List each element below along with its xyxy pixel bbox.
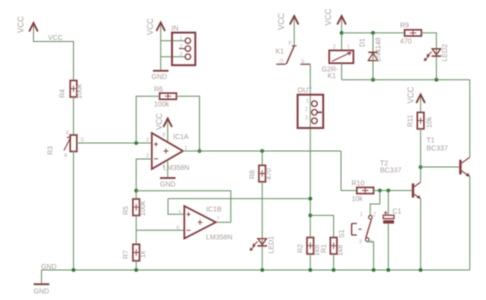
wire IC1A -in jog <box>136 159 152 191</box>
svg-text:470: 470 <box>400 39 412 46</box>
supply symbol VCC (IC1A) <box>155 113 172 130</box>
wire IC1B output lead <box>216 221 231 223</box>
svg-text:GND: GND <box>41 264 57 271</box>
svg-text:100k: 100k <box>77 83 84 99</box>
svg-text:R5: R5 <box>123 206 130 215</box>
resistor R10 <box>352 181 374 204</box>
junction OUT column / R1 branch <box>308 214 312 218</box>
svg-text:3: 3 <box>359 240 362 246</box>
relay coil K1 <box>322 45 354 81</box>
svg-text:1: 1 <box>360 212 363 218</box>
svg-text:2: 2 <box>333 45 336 51</box>
svg-text:10k: 10k <box>427 116 434 128</box>
svg-text:C1: C1 <box>393 209 402 216</box>
wire R6 left lead down to +in <box>136 96 159 143</box>
resistor R8 <box>250 165 274 182</box>
svg-text:2: 2 <box>373 212 376 218</box>
connector IN <box>172 26 196 66</box>
svg-text:S1: S1 <box>339 229 346 238</box>
svg-text:LED1: LED1 <box>269 236 276 254</box>
svg-text:BC337: BC337 <box>427 146 449 153</box>
junction OUT column / feedback row <box>308 197 312 201</box>
junction R1/rail <box>332 268 336 272</box>
resistor R11 <box>408 112 434 128</box>
junction S1/rail <box>372 268 376 272</box>
ground symbol GND (bottom left) <box>34 270 50 296</box>
relay contact K1 <box>276 41 311 65</box>
resistor R4 <box>60 81 84 100</box>
wire VCC left to R4 column <box>34 32 74 81</box>
wire S1 to rail <box>367 242 373 271</box>
svg-text:BC337: BC337 <box>380 168 402 175</box>
wire R11 to T1 base node <box>420 129 422 167</box>
svg-text:VCC: VCC <box>155 113 164 130</box>
ground rail (bottom) <box>42 269 470 271</box>
svg-text:T2: T2 <box>380 161 388 168</box>
svg-text:VCC: VCC <box>324 8 333 25</box>
svg-text:D1: D1 <box>360 38 367 47</box>
wire D1 top lead <box>372 33 374 80</box>
junction D1 bottom <box>371 78 375 82</box>
wire R8 to LED1 <box>261 182 263 270</box>
wire IC1A out to R10 <box>341 151 357 191</box>
potentiometer R3 <box>48 131 85 160</box>
svg-text:VCC: VCC <box>17 16 26 33</box>
wire K1 S contact down through OUT to R2 <box>309 64 311 237</box>
supply symbol VCC (left) <box>17 16 38 33</box>
svg-text:6: 6 <box>177 226 180 232</box>
junction T2 collector node <box>419 165 423 169</box>
wire T2 emitter to rail <box>420 199 422 270</box>
resistor R7 <box>123 244 147 260</box>
svg-text:IN: IN <box>172 26 179 33</box>
svg-text:7: 7 <box>217 217 220 223</box>
svg-text:1N4148: 1N4148 <box>376 37 383 62</box>
wire VCC to K1 pole <box>293 25 295 46</box>
wire to capacitor C1 <box>387 191 389 216</box>
transistor T2 <box>380 161 421 199</box>
supply symbol VCC (IN header) <box>146 18 165 35</box>
junction S1 branch <box>378 189 382 193</box>
switch S1 <box>339 212 376 246</box>
wire R4 to R3 <box>73 97 75 135</box>
junction D1 top <box>371 31 375 35</box>
svg-text:R8: R8 <box>250 170 257 179</box>
top rail to R9 <box>342 32 405 34</box>
svg-text:K1: K1 <box>276 49 285 56</box>
wire R1 to rail <box>333 254 335 270</box>
wire VCC to R11 <box>420 103 422 112</box>
wire R7 to rail <box>135 261 137 270</box>
wire C1 to rail <box>387 224 389 270</box>
svg-text:10k: 10k <box>352 196 364 203</box>
wire R3 bottom to ground rail <box>73 152 75 271</box>
supply symbol VCC (K1 contact) <box>277 13 299 30</box>
svg-text:R1: R1 <box>321 244 328 253</box>
op-amp IC1B <box>177 206 233 242</box>
LED LED1 <box>250 236 276 254</box>
wire R5 to R7 <box>135 216 137 245</box>
svg-text:1: 1 <box>306 99 309 105</box>
svg-text:4: 4 <box>163 164 166 170</box>
svg-text:1: 1 <box>180 36 183 42</box>
svg-text:LED2: LED2 <box>442 44 449 62</box>
wire T1 collector to relay rail <box>469 80 471 158</box>
junction C1 branch <box>386 189 390 193</box>
junction R7/rail <box>134 268 138 272</box>
wire VCC to IN pin1 and down to GND <box>160 31 162 71</box>
svg-text:VCC: VCC <box>146 18 155 35</box>
svg-text:8: 8 <box>163 133 166 139</box>
junction C1/rail <box>386 268 390 272</box>
svg-text:K1: K1 <box>328 73 337 80</box>
svg-text:GND: GND <box>160 182 176 189</box>
junction -in node <box>134 189 138 193</box>
svg-text:T1: T1 <box>427 138 435 145</box>
wire R8 branch <box>261 151 263 165</box>
wire coil bottom to relay rail <box>341 63 343 79</box>
svg-text:3: 3 <box>305 116 308 122</box>
wire feedback row to OUT column <box>168 198 310 200</box>
junction T2 emitter/rail <box>419 268 423 272</box>
svg-text:O: O <box>280 59 284 65</box>
svg-text:LM358N: LM358N <box>163 165 189 172</box>
junction VCC node <box>340 31 344 35</box>
svg-text:IC1B: IC1B <box>206 207 222 214</box>
svg-text:R11: R11 <box>408 115 415 127</box>
svg-text:1: 1 <box>347 45 350 51</box>
wire IC1A gnd pin <box>167 161 169 178</box>
supply symbol VCC (R11) <box>407 86 425 103</box>
resistor R6 (feedback) <box>154 87 176 109</box>
junction LED2 bottom <box>435 78 439 82</box>
wire T1 emitter to rail <box>469 177 471 270</box>
svg-text:4: 4 <box>370 240 373 246</box>
svg-text:R7: R7 <box>123 250 130 259</box>
wire divider to IC1B -in <box>136 229 184 231</box>
wire to switch S1 <box>370 191 380 216</box>
svg-text:1k8: 1k8 <box>314 245 321 256</box>
junction R2/rail <box>308 268 312 272</box>
svg-text:R6: R6 <box>154 87 163 94</box>
junction R6/output <box>198 149 202 153</box>
wire R3 wiper to IC1A +in <box>77 142 152 144</box>
junction R3 column / rail <box>72 268 76 272</box>
svg-text:IC1A: IC1A <box>173 134 189 141</box>
wire IC1B +in loop <box>168 199 184 215</box>
wire -in node down to R5 <box>135 191 137 199</box>
svg-text:VCC: VCC <box>48 35 63 42</box>
wire R6 right lead down to output <box>176 96 199 151</box>
diode D1 <box>360 37 383 62</box>
resistor R1 <box>321 238 345 257</box>
wire R2 to rail <box>309 254 311 270</box>
wire VCC pin8 into IC1A <box>167 127 169 142</box>
LED LED2 <box>424 44 449 62</box>
junction on +in wire <box>134 141 138 145</box>
capacitor C1 (polarized) <box>383 209 401 224</box>
resistor R2 <box>298 238 322 257</box>
connector OUT <box>298 88 324 129</box>
wire IN pin3 stub <box>161 56 186 58</box>
supply symbol VCC (relay) <box>324 8 346 25</box>
wire -in node to IC1B loop column <box>136 191 231 223</box>
svg-text:VCC: VCC <box>407 86 416 103</box>
wire IN pin1 stub <box>161 40 186 42</box>
ground symbol GND (IC1A) <box>160 178 176 189</box>
transistor T1 <box>427 138 470 177</box>
junction output/R8 <box>260 149 264 153</box>
svg-text:LM358N: LM358N <box>206 235 232 242</box>
svg-text:R9: R9 <box>400 23 409 30</box>
wire IC1A output <box>183 150 341 152</box>
svg-text:R3: R3 <box>48 146 55 155</box>
svg-text:R4: R4 <box>60 89 67 98</box>
resistor R9 <box>400 23 421 46</box>
wire R10 to T2 base <box>374 190 412 192</box>
svg-text:R10: R10 <box>352 181 365 188</box>
relay drive rail <box>342 79 470 81</box>
svg-text:VCC: VCC <box>277 13 286 30</box>
junction LED1/rail <box>260 268 264 272</box>
svg-text:3: 3 <box>146 138 149 144</box>
svg-text:470: 470 <box>266 168 273 180</box>
svg-text:GND: GND <box>152 74 168 81</box>
svg-text:2: 2 <box>305 107 308 113</box>
wire base node to T1 <box>421 166 460 168</box>
svg-text:OUT: OUT <box>298 88 314 95</box>
svg-text:GND: GND <box>34 289 50 296</box>
wire VCC to top rail <box>341 25 343 51</box>
svg-text:R2: R2 <box>298 244 305 253</box>
svg-text:3: 3 <box>180 52 183 58</box>
resistor R5 <box>123 199 147 216</box>
svg-text:1k: 1k <box>140 250 147 258</box>
wire T2 collector up <box>420 167 422 182</box>
wire R1 branch <box>310 215 333 237</box>
svg-text:2: 2 <box>180 44 183 50</box>
op-amp IC1A <box>146 133 189 172</box>
svg-text:100k: 100k <box>154 102 170 109</box>
wire R9 to LED2 <box>421 33 436 80</box>
svg-text:1k8: 1k8 <box>338 245 345 256</box>
ground symbol GND (under IN) <box>152 71 169 81</box>
svg-text:100k: 100k <box>140 200 147 216</box>
svg-text:5: 5 <box>179 211 182 217</box>
